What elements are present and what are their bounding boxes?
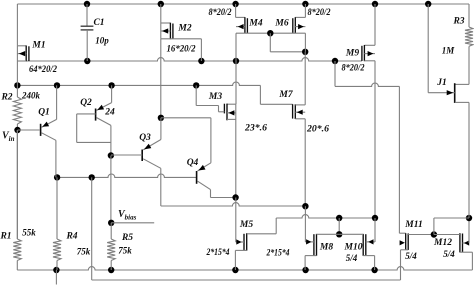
svg-text:M10: M10 (344, 243, 363, 253)
svg-text:8*20/2: 8*20/2 (342, 63, 365, 73)
svg-text:M11: M11 (404, 220, 422, 230)
svg-text:M5: M5 (239, 220, 253, 230)
svg-text:M2: M2 (177, 24, 191, 34)
svg-text:M9: M9 (345, 49, 359, 59)
svg-text:R5: R5 (121, 233, 133, 243)
svg-text:1M: 1M (442, 46, 456, 56)
svg-text:23*.6: 23*.6 (244, 123, 268, 133)
svg-text:8*20/2: 8*20/2 (209, 7, 232, 17)
svg-text:8*20/2: 8*20/2 (308, 7, 331, 17)
svg-text:R4: R4 (65, 232, 77, 242)
svg-text:5/4: 5/4 (405, 251, 417, 261)
svg-text:75k: 75k (77, 247, 91, 257)
svg-text:M4: M4 (248, 19, 262, 29)
svg-text:64*20/2: 64*20/2 (29, 64, 57, 74)
svg-text:R1: R1 (0, 232, 12, 242)
svg-text:2*15*4: 2*15*4 (206, 247, 230, 257)
svg-text:M7: M7 (278, 90, 293, 100)
svg-text:75k: 75k (118, 246, 132, 256)
svg-text:Q1: Q1 (38, 108, 50, 118)
svg-text:J1: J1 (436, 78, 447, 88)
svg-text:5/4: 5/4 (443, 249, 455, 259)
svg-text:R2: R2 (0, 93, 12, 103)
svg-text:M1: M1 (31, 41, 45, 51)
svg-text:C1: C1 (93, 18, 104, 28)
svg-text:Q2: Q2 (80, 98, 92, 108)
svg-text:Q3: Q3 (139, 133, 151, 143)
svg-text:5/4: 5/4 (346, 253, 358, 263)
svg-text:10p: 10p (95, 36, 109, 46)
svg-text:20*.6: 20*.6 (306, 124, 330, 134)
svg-text:240k: 240k (21, 91, 41, 101)
svg-text:M6: M6 (274, 19, 288, 29)
svg-text:24: 24 (104, 108, 115, 118)
svg-text:16*20/2: 16*20/2 (167, 44, 196, 54)
svg-text:55k: 55k (22, 228, 36, 238)
svg-text:Q4: Q4 (187, 158, 199, 168)
svg-text:R3: R3 (452, 17, 464, 27)
svg-text:M8: M8 (319, 243, 333, 253)
svg-text:M3: M3 (208, 92, 222, 102)
svg-text:2*15*4: 2*15*4 (266, 248, 290, 258)
svg-text:M12: M12 (433, 238, 452, 248)
